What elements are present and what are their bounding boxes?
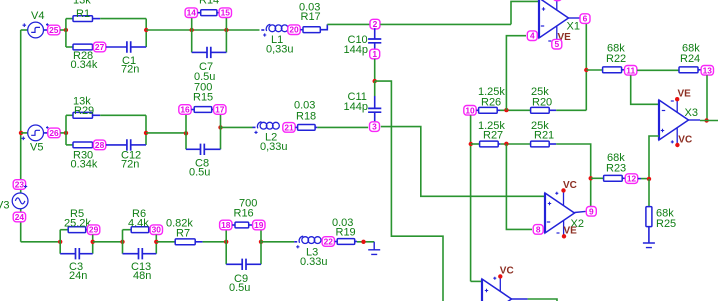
wire C9 left xyxy=(226,263,242,265)
svg-text:5: 5 xyxy=(554,39,559,49)
wire bottom row from bus xyxy=(21,241,61,243)
wire R17 step up xyxy=(320,24,327,29)
svg-text:X1: X1 xyxy=(567,21,580,33)
wire junction to C11 xyxy=(374,81,376,96)
X3 output lead xyxy=(689,119,701,121)
wire V5 left lead xyxy=(21,132,28,134)
svg-text:22: 22 xyxy=(324,237,334,247)
node 1 xyxy=(370,49,380,59)
svg-text:R16: R16 xyxy=(234,208,254,220)
wire C7 right xyxy=(211,51,227,53)
node 30 xyxy=(150,225,162,235)
wire node1 down xyxy=(374,59,376,81)
node 24 xyxy=(13,212,25,222)
wire to R1 xyxy=(66,18,73,20)
wire R1 lead xyxy=(93,18,101,20)
resistor R20 xyxy=(531,107,550,113)
resistor R23 xyxy=(604,175,623,181)
wire R23 lead xyxy=(622,177,625,179)
V3 polarity mark xyxy=(24,185,27,188)
wire R1 loop right vertical xyxy=(145,19,147,47)
wire node2 to C10 xyxy=(374,28,376,39)
resistor R15 xyxy=(194,107,212,113)
svg-text:9: 9 xyxy=(589,206,594,216)
node 15 xyxy=(219,8,231,18)
X1 - input marker xyxy=(541,25,544,27)
svg-text:21: 21 xyxy=(284,122,294,132)
wire R7 lead xyxy=(195,241,202,243)
svg-text:R14: R14 xyxy=(199,0,219,7)
svg-text:12: 12 xyxy=(627,174,637,184)
wire node10 to R26 xyxy=(476,109,478,111)
wire V4 to node 25 xyxy=(43,29,48,31)
wire R29 lead xyxy=(93,114,101,116)
wire R18 to node3 xyxy=(317,126,368,128)
V5 polarity mark xyxy=(22,137,26,141)
wire junction down to node 8 xyxy=(506,144,532,230)
svg-text:R26: R26 xyxy=(481,97,501,109)
X3 + input marker xyxy=(661,129,664,132)
svg-text:25: 25 xyxy=(49,25,59,35)
node 28 xyxy=(93,140,105,150)
wire R1 loop left vertical xyxy=(65,19,67,47)
wire node12 to junction xyxy=(641,178,649,180)
wire R14 to node15 xyxy=(217,12,219,14)
node 27 xyxy=(93,42,105,52)
svg-text:R20: R20 xyxy=(532,97,552,109)
svg-text:R29: R29 xyxy=(74,105,94,117)
wire node28 to C12 xyxy=(106,144,127,146)
op-amp X2 xyxy=(545,193,575,233)
X3 - input marker xyxy=(662,110,665,112)
node 6 xyxy=(580,14,590,24)
wire R26 to R20 xyxy=(500,109,531,111)
wire left source bus xyxy=(20,30,22,242)
resistor R14 xyxy=(201,10,217,16)
wire junction to X3 + input xyxy=(649,136,659,179)
X3 VE supply stub xyxy=(676,100,678,112)
svg-text:26: 26 xyxy=(49,128,59,138)
svg-text:0.5u: 0.5u xyxy=(229,282,250,294)
node 14 xyxy=(185,8,197,18)
wire X3 output to edge xyxy=(700,120,718,122)
resistor R25 xyxy=(646,207,652,227)
X4 VC supply stub xyxy=(499,278,501,292)
junction C10/C11 xyxy=(373,79,377,83)
wire node18 to R16 xyxy=(232,224,235,226)
svg-text:16: 16 xyxy=(180,105,190,115)
wire junction down to R25 xyxy=(648,179,650,207)
wire node2 to X1 xyxy=(380,23,511,25)
node 16 xyxy=(179,105,191,115)
wire junction to R23 xyxy=(591,177,604,179)
wire R1 to right vertical xyxy=(100,18,146,20)
svg-text:VE: VE xyxy=(678,89,692,100)
X2 output lead xyxy=(575,211,586,212)
resistor R26 xyxy=(479,107,498,113)
wire node29 vertical xyxy=(92,235,94,254)
wire L3 dash xyxy=(294,241,297,243)
junction R6 loop left xyxy=(120,240,124,244)
svg-text:V5: V5 xyxy=(30,142,43,154)
wire C8 right xyxy=(204,148,220,150)
junction R5 loop left xyxy=(58,240,62,244)
L3 polarity mark xyxy=(296,245,299,248)
junction left of C8 xyxy=(184,131,188,135)
wire row3 seg2 xyxy=(93,241,123,243)
resistor R5 xyxy=(68,227,86,233)
junction row1 right of C7 xyxy=(224,28,228,32)
svg-text:48n: 48n xyxy=(133,270,151,282)
svg-text:VC: VC xyxy=(563,180,577,191)
wire to R28 xyxy=(66,46,73,48)
X4 VC marker xyxy=(493,277,496,280)
svg-text:14: 14 xyxy=(187,8,197,18)
svg-text:29: 29 xyxy=(89,225,99,235)
wire node13 down to X3 output xyxy=(706,75,708,120)
wire main row1 xyxy=(146,29,259,31)
capacitor C11 xyxy=(368,108,381,112)
svg-text:R7: R7 xyxy=(176,228,190,240)
node 20 xyxy=(288,25,300,35)
wire R5 lead xyxy=(86,229,88,231)
svg-text:R18: R18 xyxy=(296,111,316,123)
wire C10 to node1 xyxy=(374,43,376,50)
wire R7 to R16 loop xyxy=(203,241,227,243)
svg-text:19: 19 xyxy=(254,220,264,230)
junction V4 loop right xyxy=(144,28,148,32)
resistor R29 xyxy=(73,112,93,118)
wire R21 lead xyxy=(549,143,556,145)
junction V4 loop left xyxy=(64,28,68,32)
capacitor C12 xyxy=(127,139,131,150)
resistor R6 xyxy=(131,227,149,233)
wire row3 seg3 xyxy=(156,241,175,243)
wire to C8 left xyxy=(186,148,201,150)
node 10 xyxy=(464,105,476,115)
ground at R19 xyxy=(368,242,380,255)
resistor R22 xyxy=(603,67,622,73)
svg-text:30: 30 xyxy=(152,225,162,235)
svg-text:1: 1 xyxy=(372,49,377,59)
wire R30 lead xyxy=(93,144,95,146)
node 2 xyxy=(370,19,380,29)
X3 VC supply dot xyxy=(675,143,679,147)
wire junction up to node 4 xyxy=(506,36,526,110)
junction R6 loop right xyxy=(154,240,158,244)
svg-text:18: 18 xyxy=(221,220,231,230)
wire node15 vertical xyxy=(225,17,227,52)
svg-text:VC: VC xyxy=(500,266,514,277)
wire R24 lead xyxy=(698,69,701,71)
wire R25 to ground xyxy=(648,227,650,243)
node 12 xyxy=(625,174,637,184)
svg-text:R27: R27 xyxy=(483,130,503,142)
svg-text:V4: V4 xyxy=(31,10,44,22)
wire up to X1 + input xyxy=(511,1,539,24)
svg-text:13k: 13k xyxy=(73,0,91,7)
ground at R25 xyxy=(643,243,655,248)
X4 output lead xyxy=(512,298,528,300)
svg-text:72n: 72n xyxy=(121,64,139,76)
wire R16 to node19 xyxy=(249,224,253,226)
svg-text:20: 20 xyxy=(289,25,299,35)
wire R29 loop left vertical xyxy=(65,115,67,145)
wire node26 to junction xyxy=(60,132,66,134)
inductor L2 coil xyxy=(257,122,261,129)
wire to R5 xyxy=(60,229,68,231)
junction V5 loop left xyxy=(64,131,68,135)
wire R27 lead xyxy=(498,143,500,145)
svg-text:0.5u: 0.5u xyxy=(189,167,210,179)
svg-text:72n: 72n xyxy=(121,159,139,171)
V4 + terminal tick xyxy=(46,23,49,26)
X1 VE supply stub xyxy=(556,26,558,40)
wire node17 vertical xyxy=(220,114,222,149)
capacitor C9 xyxy=(242,259,246,270)
wire R29 to right vertical xyxy=(100,114,146,116)
junction R19 ground xyxy=(361,240,365,244)
node 5 xyxy=(552,39,562,49)
L1 polarity mark xyxy=(263,33,266,36)
wire to R6 xyxy=(123,229,132,231)
svg-text:13: 13 xyxy=(703,65,713,75)
junction V5 loop right xyxy=(144,131,148,135)
wire C11 to node3 xyxy=(374,112,376,122)
L2 polarity mark xyxy=(254,131,257,134)
wire node12 lead xyxy=(638,178,641,180)
X1 output lead xyxy=(569,17,580,19)
wire C9 right xyxy=(246,263,261,265)
resistor R28 xyxy=(73,44,93,50)
junction node12 / R25 / X3+ xyxy=(647,177,651,181)
svg-text:VC: VC xyxy=(678,135,692,146)
svg-text:0.34k: 0.34k xyxy=(71,159,98,171)
X4 + input marker xyxy=(485,289,488,292)
capacitor C3 xyxy=(76,248,80,259)
resistor R18 xyxy=(298,125,316,131)
wire node11 to X3 - input xyxy=(631,75,659,104)
junction X1 out / R22 xyxy=(584,68,588,72)
capacitor C1 xyxy=(127,41,131,52)
wire C11 top lead xyxy=(374,96,376,108)
svg-text:4: 4 xyxy=(530,31,535,41)
resistor R30 xyxy=(73,142,93,148)
wire C12 to right vertical xyxy=(131,144,146,146)
svg-text:24n: 24n xyxy=(69,270,87,282)
svg-text:6: 6 xyxy=(583,14,588,24)
X3 VC supply stub xyxy=(676,128,678,145)
X3 VC marker xyxy=(671,140,674,143)
svg-text:2: 2 xyxy=(373,19,378,29)
X2 - input marker xyxy=(547,221,550,223)
node 7 capsule sliver at top edge xyxy=(553,0,561,1)
wire R20 to X1 output xyxy=(556,109,586,111)
wire C3 right xyxy=(79,253,92,255)
svg-text:15: 15 xyxy=(221,8,231,18)
op-amp X1 xyxy=(539,0,569,38)
inductor L1 coil xyxy=(266,24,270,31)
node 9 xyxy=(586,206,596,216)
inductor L3 coil xyxy=(299,236,303,243)
X2 VE marker xyxy=(557,232,560,234)
wire C13 left xyxy=(123,253,139,255)
svg-text:R19: R19 xyxy=(336,227,356,239)
svg-text:0,33u: 0,33u xyxy=(260,141,288,153)
wire X4 output xyxy=(528,299,557,301)
wire R6 lead xyxy=(149,229,151,231)
wire V5 row out xyxy=(146,132,186,134)
wire node25 to junction xyxy=(60,29,66,31)
wire to R27 xyxy=(471,143,480,145)
wire L2 dash xyxy=(253,126,256,128)
wire long middle vertical xyxy=(375,81,443,301)
svg-text:X3: X3 xyxy=(685,107,698,119)
wire C1 to right vertical xyxy=(131,46,147,48)
resistor R7 xyxy=(175,239,195,245)
wire node21 to R18 xyxy=(295,126,297,128)
wire to C7 left xyxy=(192,51,207,53)
wire junction to R22 xyxy=(586,69,602,71)
wire R19 to ground xyxy=(357,241,374,243)
svg-text:27: 27 xyxy=(95,42,105,52)
capacitor C13 xyxy=(139,248,143,259)
wire R27 to R21 xyxy=(500,143,530,145)
wire node16 to R15 xyxy=(191,109,194,111)
svg-text:23: 23 xyxy=(15,180,25,190)
resistor R16 xyxy=(235,222,249,228)
X4 VC supply dot xyxy=(498,274,502,278)
X3 VE supply dot xyxy=(675,97,679,101)
X2 + input marker xyxy=(548,202,551,205)
svg-text:8: 8 xyxy=(536,224,541,234)
svg-text:R23: R23 xyxy=(606,163,626,175)
wire R28 lead xyxy=(93,46,95,48)
node 13 xyxy=(701,65,713,75)
node 17 xyxy=(214,105,226,115)
node 22 xyxy=(322,237,334,247)
junction row1 left of C7 xyxy=(190,28,194,32)
node 4 xyxy=(527,31,537,41)
X2 VE supply stub xyxy=(563,221,565,235)
wire node27 to C1 xyxy=(106,46,127,48)
node 21 xyxy=(283,122,295,132)
wire row3 seg4 xyxy=(261,241,294,243)
op-amp X4 xyxy=(482,279,512,301)
svg-text:144p: 144p xyxy=(344,101,368,113)
V4 polarity mark xyxy=(23,23,27,27)
svg-text:17: 17 xyxy=(215,105,225,115)
wire R6 loop left vertical xyxy=(122,230,124,254)
resistor R27 xyxy=(480,141,499,147)
node 29 xyxy=(87,225,99,235)
wire to L2 xyxy=(221,126,253,128)
wire R19 lead xyxy=(355,241,357,243)
junction R27/R21 to X2 - xyxy=(504,142,508,146)
X2 VE supply dot xyxy=(562,234,566,238)
svg-text:3: 3 xyxy=(372,122,377,132)
node 3 xyxy=(370,122,380,132)
wire R22 lead xyxy=(622,69,625,71)
wire node22 to R19 xyxy=(335,241,338,243)
node 18 xyxy=(220,220,232,230)
junction R5 loop right xyxy=(91,240,95,244)
svg-text:0.33u: 0.33u xyxy=(300,256,328,268)
X2 VC marker xyxy=(555,192,558,195)
svg-text:VE: VE xyxy=(564,225,578,236)
inductor L1 xyxy=(261,29,264,31)
junction X3 output feedback xyxy=(704,118,708,122)
wire V4 left lead xyxy=(21,29,28,31)
wire node16 vertical xyxy=(185,114,187,149)
wire C3 left xyxy=(60,253,75,255)
wire node18 vertical xyxy=(225,230,227,265)
svg-text:R24: R24 xyxy=(680,53,700,65)
wire node14 to R14 xyxy=(198,12,201,14)
resistor R21 xyxy=(531,141,550,147)
node 11 xyxy=(625,65,637,75)
svg-text:24: 24 xyxy=(15,212,25,222)
junction right of C8 xyxy=(218,125,222,129)
wire R29 loop right vertical xyxy=(145,115,147,145)
capacitor C8 xyxy=(201,144,205,155)
junction node10/R27 xyxy=(469,142,473,146)
op-amp X3 xyxy=(659,100,689,140)
X1 + input marker xyxy=(542,7,545,10)
resistor R19 xyxy=(337,239,355,245)
capacitor C10 xyxy=(368,39,381,43)
wire node30 vertical xyxy=(155,235,157,254)
voltage source V5 xyxy=(28,125,44,141)
wire to X4 + input xyxy=(471,280,482,282)
X2 VC supply stub xyxy=(563,191,565,205)
svg-text:11: 11 xyxy=(626,65,635,75)
svg-text:R25: R25 xyxy=(656,218,676,230)
svg-text:28: 28 xyxy=(95,140,105,150)
node 26 xyxy=(48,128,60,138)
node 8 xyxy=(533,224,543,234)
svg-text:144p: 144p xyxy=(344,44,368,56)
wire node20 to R17 xyxy=(300,29,303,31)
resistor R17 xyxy=(303,27,320,33)
wire V5 to node 26 xyxy=(43,132,48,134)
wire R20 lead xyxy=(549,109,556,111)
svg-text:R17: R17 xyxy=(301,11,321,23)
wire to R30 xyxy=(66,144,73,146)
V5 + terminal tick xyxy=(46,126,49,129)
junction X2 out / R23 xyxy=(589,176,593,180)
X2 VC supply dot xyxy=(561,188,565,192)
svg-text:R15: R15 xyxy=(193,92,213,104)
node 19 xyxy=(253,220,265,230)
junction R26/R20 to X1 - xyxy=(504,108,508,112)
wire R5 loop left vertical xyxy=(59,230,61,254)
svg-text:V3: V3 xyxy=(0,200,9,212)
wire node14 vertical xyxy=(191,17,193,52)
X3 VE marker xyxy=(671,100,674,102)
capacitor C7 xyxy=(207,47,211,58)
svg-text:10: 10 xyxy=(465,105,475,115)
junction bus V5 xyxy=(19,131,23,135)
svg-text:R22: R22 xyxy=(606,53,626,65)
wire to R29 xyxy=(66,114,73,116)
resistor R24 xyxy=(679,67,698,73)
wire node11 to R24 xyxy=(637,69,679,71)
wire C13 right xyxy=(142,253,156,255)
svg-text:0,33u: 0,33u xyxy=(266,44,294,56)
wire R21 to X2 output xyxy=(556,144,591,206)
wire node19 vertical xyxy=(260,230,262,265)
